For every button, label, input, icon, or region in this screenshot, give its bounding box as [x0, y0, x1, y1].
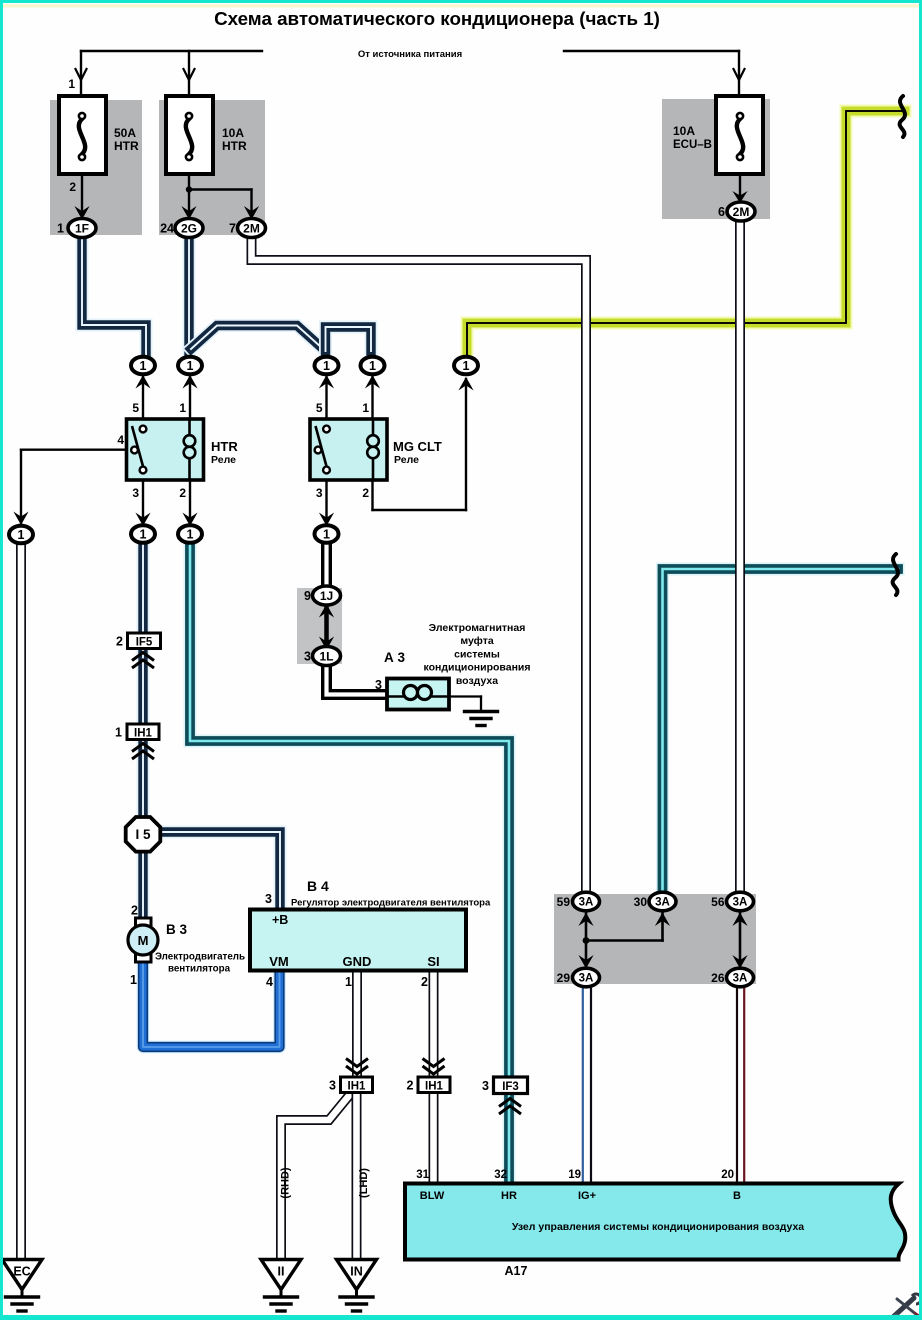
svg-text:Электродвигатель: Электродвигатель — [155, 952, 245, 963]
svg-text:6: 6 — [718, 205, 725, 219]
svg-text:IG+: IG+ — [578, 1190, 596, 1202]
svg-text:3: 3 — [265, 892, 272, 906]
svg-text:1: 1 — [362, 401, 369, 415]
svg-text:1: 1 — [187, 359, 194, 373]
svg-text:5: 5 — [132, 401, 139, 415]
svg-text:3A: 3A — [579, 897, 594, 909]
svg-text:GND: GND — [343, 954, 372, 969]
svg-text:1: 1 — [369, 359, 376, 373]
svg-text:системы: системы — [454, 648, 500, 660]
svg-text:19: 19 — [568, 1169, 581, 1181]
svg-text:SI: SI — [427, 954, 439, 969]
svg-text:30: 30 — [634, 895, 648, 909]
svg-text:муфта: муфта — [460, 635, 494, 647]
svg-text:3: 3 — [132, 486, 139, 500]
svg-text:1: 1 — [345, 975, 352, 989]
svg-text:HR: HR — [501, 1190, 517, 1202]
svg-text:7: 7 — [229, 222, 236, 236]
svg-text:1: 1 — [115, 726, 122, 740]
svg-text:31: 31 — [416, 1169, 429, 1181]
svg-text:IH1: IH1 — [425, 1081, 444, 1093]
svg-text:(RHD): (RHD) — [280, 1167, 292, 1198]
svg-text:1: 1 — [18, 528, 25, 542]
svg-text:А 3: А 3 — [384, 650, 406, 665]
svg-text:2: 2 — [362, 486, 369, 500]
svg-text:3A: 3A — [579, 973, 594, 985]
svg-text:HTR: HTR — [114, 139, 139, 153]
svg-text:5: 5 — [316, 401, 323, 415]
svg-text:Узел управления системы кондиц: Узел управления системы кондиционировани… — [512, 1221, 804, 1233]
svg-text:2: 2 — [69, 180, 76, 194]
svg-text:IH1: IH1 — [348, 1081, 367, 1093]
svg-text:От источника питания: От источника питания — [358, 49, 462, 60]
svg-text:24: 24 — [160, 222, 174, 236]
svg-text:(LHD): (LHD) — [358, 1168, 370, 1198]
svg-text:1: 1 — [463, 359, 470, 373]
svg-text:26: 26 — [711, 971, 725, 985]
svg-text:1: 1 — [140, 359, 147, 373]
svg-text:4: 4 — [117, 433, 124, 447]
svg-text:B: B — [733, 1190, 741, 1202]
svg-text:MG CLT: MG CLT — [393, 439, 442, 454]
svg-text:2: 2 — [116, 635, 123, 649]
svg-text:1J: 1J — [320, 589, 333, 603]
svg-text:BLW: BLW — [420, 1190, 445, 1202]
svg-text:VM: VM — [269, 954, 289, 969]
svg-text:32: 32 — [494, 1169, 507, 1181]
svg-text:3A: 3A — [655, 897, 670, 909]
svg-text:1: 1 — [179, 401, 186, 415]
svg-text:В 4: В 4 — [307, 878, 329, 894]
svg-text:2M: 2M — [243, 221, 260, 235]
svg-text:1: 1 — [68, 77, 75, 91]
svg-text:IF3: IF3 — [502, 1081, 519, 1093]
svg-text:IH1: IH1 — [134, 728, 153, 740]
svg-text:Схема автоматического кондицио: Схема автоматического кондиционера (част… — [214, 8, 660, 29]
svg-text:3A: 3A — [733, 897, 748, 909]
svg-text:10A: 10A — [222, 126, 244, 140]
svg-text:9: 9 — [304, 589, 311, 603]
svg-text:кондиционирования: кондиционирования — [423, 662, 530, 674]
svg-text:29: 29 — [557, 971, 571, 985]
svg-text:IF5: IF5 — [136, 637, 153, 649]
svg-text:А17: А17 — [505, 1264, 528, 1278]
svg-text:56: 56 — [711, 895, 725, 909]
svg-text:2G: 2G — [181, 221, 197, 235]
svg-text:М: М — [138, 933, 149, 948]
svg-text:1L: 1L — [319, 649, 333, 663]
svg-text:1: 1 — [187, 528, 194, 542]
svg-text:59: 59 — [557, 895, 571, 909]
svg-text:Регулятор электродвигателя вен: Регулятор электродвигателя вентилятора — [291, 898, 491, 909]
svg-text:II: II — [278, 1265, 285, 1279]
svg-text:20: 20 — [721, 1169, 734, 1181]
svg-text:HTR: HTR — [211, 439, 238, 454]
svg-text:1: 1 — [323, 528, 330, 542]
svg-text:50A: 50A — [114, 126, 136, 140]
svg-text:Реле: Реле — [394, 454, 419, 466]
svg-text:В 3: В 3 — [166, 922, 188, 937]
svg-text:4: 4 — [266, 975, 273, 989]
svg-text:HTR: HTR — [222, 139, 247, 153]
svg-text:вентилятора: вентилятора — [168, 964, 231, 975]
svg-text:3: 3 — [316, 486, 323, 500]
svg-text:2: 2 — [421, 975, 428, 989]
svg-text:3: 3 — [375, 678, 382, 692]
svg-text:IN: IN — [350, 1265, 363, 1279]
svg-text:3: 3 — [329, 1079, 336, 1093]
svg-text:ECU–B: ECU–B — [673, 139, 712, 151]
svg-text:2: 2 — [131, 904, 138, 918]
svg-text:Реле: Реле — [211, 454, 236, 466]
svg-text:2: 2 — [407, 1079, 414, 1093]
svg-text:10A: 10A — [673, 124, 695, 138]
svg-text:1: 1 — [130, 973, 137, 987]
svg-text:3: 3 — [304, 650, 311, 664]
svg-text:2M: 2M — [733, 205, 750, 219]
svg-text:3A: 3A — [733, 973, 748, 985]
svg-text:1F: 1F — [75, 221, 89, 235]
svg-text:EC: EC — [13, 1265, 30, 1279]
svg-text:воздуха: воздуха — [456, 675, 498, 687]
svg-text:2: 2 — [179, 486, 186, 500]
svg-text:1: 1 — [57, 222, 64, 236]
svg-text:I 5: I 5 — [135, 827, 151, 842]
svg-text:1: 1 — [323, 359, 330, 373]
svg-text:Электромагнитная: Электромагнитная — [429, 622, 526, 634]
svg-text:1: 1 — [140, 528, 147, 542]
svg-text:3: 3 — [482, 1079, 489, 1093]
svg-text:+В: +В — [272, 913, 288, 927]
